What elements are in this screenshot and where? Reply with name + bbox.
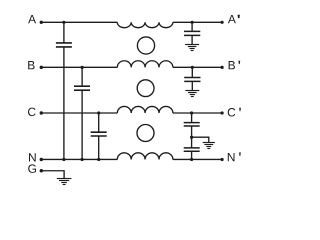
wire C left [41,112,117,114]
terminal N' [221,158,224,161]
wire CY2 upper [191,67,193,77]
wire N right [173,158,222,160]
core circle 2 (between L2 and L3) [137,80,154,97]
wire B right [173,66,222,68]
wire C right [173,112,222,114]
junction A'-CY1 [191,21,194,24]
inductor L4 (line N, arcs up) [117,153,173,160]
junction C'-CY3 [190,111,193,114]
terminal C' [221,111,224,114]
wire CX1 upper [63,22,65,43]
junction N-CX3 [97,158,100,161]
junction A-CX1 [62,21,65,24]
wire G [41,171,64,179]
terminal N [40,158,43,161]
wire CX1 lower [63,47,65,160]
wire CY1 upper [191,22,193,31]
wire CX2 lower [81,90,83,159]
ground (G terminal) [57,179,72,185]
wire CY4 upper [191,137,193,148]
capacitor CY2 (B' to ground) [184,78,200,82]
junction C-CX3 [97,111,100,114]
wire CX2 upper [81,67,83,86]
capacitor CX2 (B to N) [74,86,90,90]
terminal B' [221,66,224,69]
capacitor CY1 (A' to ground) [184,31,200,35]
junction B-CX2 [81,66,84,69]
core circle 1 (between L1 and L2) [137,37,154,54]
terminal G [40,169,43,172]
wire CX3 upper [98,113,100,132]
ground (CY1) [185,45,199,51]
node N label [29,153,36,161]
core circle 3 (between L3 and L4) [137,125,154,142]
capacitor CX1 (A to N) [56,43,72,47]
junction B'-CY2 [191,66,194,69]
node A' label [228,15,240,24]
ground (CY2) [185,91,199,97]
node N' label [228,152,241,161]
node C label [28,108,36,117]
inductor L3 (line C, arcs up) [117,106,173,113]
terminal C [40,111,43,114]
wire CX3 lower [98,136,100,159]
wire CY1 lower [191,35,193,44]
wire mid node to ground [192,137,209,142]
node B label [28,61,34,69]
inductor L2 (line B, arcs up) [117,61,173,68]
wire A right [173,21,222,23]
wire CY3 lower [191,126,193,137]
junction N-CX1 [62,158,65,161]
terminal A [40,21,43,24]
wire N left [41,158,117,160]
wire CY3 upper [191,113,193,123]
node A label [28,15,36,23]
terminal B [40,66,43,69]
terminal A' [221,21,224,24]
capacitor CY4 (mid node to N') [184,148,200,151]
junction N-CX2 [81,158,84,161]
capacitor CY3 (C' to mid node) [184,123,200,126]
inductor L1 (line A, arcs down) [117,22,173,27]
wire CY2 lower [191,81,193,90]
capacitor CX3 (C to N) [91,132,107,136]
junction mid node [190,136,193,139]
node G label [28,164,36,173]
junction N'-CY4 [190,158,193,161]
wire B left [41,66,117,68]
node C' label [228,108,241,117]
wire A left [41,21,117,23]
node B' label [229,61,241,70]
ground (mid node) [203,143,215,149]
wire CY4 lower [191,151,193,159]
